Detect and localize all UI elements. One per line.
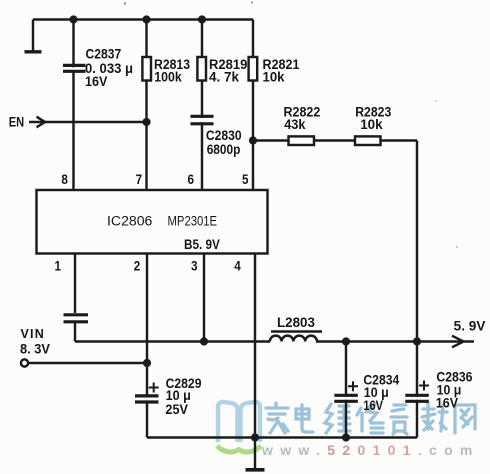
svg-text:IC2806: IC2806	[107, 214, 152, 229]
svg-text:8: 8	[61, 172, 68, 187]
resistor R2823	[355, 136, 381, 145]
C2829 plus sign	[149, 383, 159, 393]
svg-text:7: 7	[136, 172, 143, 187]
node dot pin3 / output	[200, 337, 208, 345]
inductor L2803	[270, 336, 317, 342]
ground (bottom center)	[254, 438, 256, 469]
wire top supply rail	[33, 18, 253, 20]
wire pin5 branch	[252, 20, 254, 191]
capacitor C2834	[334, 395, 358, 401]
wire EN input	[29, 121, 147, 123]
capacitor C2837	[63, 65, 86, 71]
node dot ground rail / C2834	[342, 433, 350, 441]
VIN terminal circle	[21, 359, 28, 366]
svg-text:EN: EN	[9, 115, 24, 130]
svg-text:10 μ: 10 μ	[166, 388, 191, 403]
wire feedback row to R2822/R2823	[253, 139, 417, 141]
svg-text:10k: 10k	[360, 117, 383, 132]
svg-text:B5. 9V: B5. 9V	[184, 237, 220, 252]
svg-text:16V: 16V	[85, 74, 107, 89]
node dot EN / pin7	[142, 118, 150, 126]
label C2836 value	[436, 370, 473, 411]
wire pin2 below C2829	[146, 402, 148, 438]
svg-text:10k: 10k	[263, 70, 285, 85]
L2803 underline	[271, 330, 322, 332]
svg-text:5: 5	[242, 172, 249, 187]
node dot output / feedback	[413, 337, 421, 345]
EN arrowhead	[37, 117, 46, 128]
svg-text:L2803: L2803	[277, 315, 315, 330]
wire pin1 stub	[74, 254, 76, 314]
output arrowhead 5.9V	[452, 336, 464, 348]
label IC2806 MP2301E	[107, 214, 217, 229]
capacitor (pin1, unlabeled)	[64, 315, 89, 322]
watermark chinese text 家电维修资料网	[266, 403, 475, 434]
svg-text:C2837: C2837	[86, 47, 122, 62]
label C2829 value	[165, 376, 201, 417]
node dot top rail / R2813	[142, 15, 150, 23]
svg-text:3: 3	[191, 259, 198, 274]
svg-text:6: 6	[188, 172, 195, 187]
wire pin3 stub	[203, 254, 205, 342]
label R2822 value	[284, 105, 321, 133]
wire pin6 branch	[201, 20, 203, 191]
svg-text:VIN: VIN	[21, 327, 45, 341]
wire pin4 to ground rail	[254, 254, 256, 438]
svg-text:MP2301E: MP2301E	[168, 214, 218, 229]
label C2837 value	[85, 47, 133, 90]
wire pin7 branch	[145, 20, 147, 191]
label C2834 value	[363, 373, 399, 413]
svg-text:16V: 16V	[436, 396, 458, 411]
svg-text:2: 2	[134, 259, 141, 274]
resistor R2821	[249, 57, 258, 81]
svg-text:5. 9V: 5. 9V	[454, 319, 486, 334]
svg-text:100k: 100k	[154, 70, 182, 85]
IC IC2806 MP2301E	[37, 190, 268, 254]
node dot VIN / pin2	[143, 359, 151, 367]
capacitor C2830	[191, 116, 214, 124]
wire pin2 branch (VIN / C2829)	[146, 254, 148, 395]
wire pin1 to output line	[74, 322, 76, 342]
label VIN 8.3V	[20, 327, 50, 357]
svg-text:8. 3V: 8. 3V	[20, 342, 50, 357]
scan specks	[124, 2, 458, 249]
wire bottom ground rail	[147, 436, 417, 438]
wire VIN input	[28, 362, 147, 364]
capacitor C2829	[135, 396, 159, 402]
C2836 plus sign	[419, 381, 429, 391]
svg-text:C2830: C2830	[206, 128, 242, 143]
wire C2834 branch	[345, 342, 347, 438]
svg-text:4: 4	[234, 259, 241, 274]
resistor R2813	[142, 57, 151, 81]
wire pin8 branch (through C2837)	[72, 20, 74, 191]
node dot top rail / C2837	[69, 15, 77, 23]
label C2830 value	[206, 128, 242, 157]
wire right vertical (feedback to output)	[416, 141, 418, 438]
label R2819 value	[209, 57, 247, 85]
svg-text:43k: 43k	[284, 117, 306, 132]
label R2821 value	[263, 57, 300, 85]
label R2813 value	[154, 57, 190, 85]
svg-text:25V: 25V	[165, 402, 188, 417]
capacitor C2836	[405, 395, 429, 401]
ground (top left)	[32, 20, 34, 51]
svg-text:1: 1	[55, 259, 62, 274]
node dot ground rail / pin4	[251, 433, 259, 441]
node dot output / C2834	[342, 337, 350, 345]
svg-text:6800p: 6800p	[207, 142, 241, 157]
label R2823 value	[355, 105, 392, 133]
resistor R2822	[289, 136, 315, 145]
svg-text:16V: 16V	[363, 398, 383, 413]
node dot top rail / R2819	[198, 15, 206, 23]
node dot feedback / pin5	[249, 136, 257, 144]
svg-text:www.520101.com: www.520101.com	[261, 442, 480, 458]
watermark book icon	[217, 402, 261, 452]
resistor R2819	[197, 57, 206, 81]
svg-text:4. 7k: 4. 7k	[209, 70, 239, 85]
wire output line	[75, 340, 474, 342]
C2834 plus sign	[348, 381, 358, 391]
